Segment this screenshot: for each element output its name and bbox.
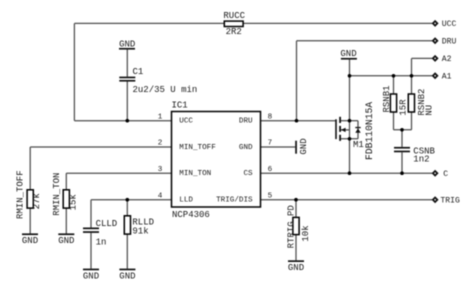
svg-text:3: 3 <box>158 166 163 174</box>
svg-text:GND: GND <box>119 40 135 50</box>
svg-text:1n: 1n <box>96 237 107 247</box>
svg-text:A2: A2 <box>442 55 452 64</box>
svg-text:NU: NU <box>425 105 435 116</box>
svg-text:FDB110N15A: FDB110N15A <box>364 102 375 160</box>
svg-text:91k: 91k <box>132 226 148 236</box>
svg-text:7: 7 <box>268 140 273 148</box>
svg-text:6: 6 <box>268 166 273 174</box>
svg-text:DRU: DRU <box>239 118 253 126</box>
svg-text:RMIN_TON: RMIN_TON <box>52 173 62 216</box>
svg-text:LLD: LLD <box>179 197 193 205</box>
svg-text:8: 8 <box>268 113 273 121</box>
svg-text:GND: GND <box>58 236 74 246</box>
svg-text:1: 1 <box>158 113 163 121</box>
svg-text:C1: C1 <box>133 67 144 77</box>
svg-text:TRIG/DIS: TRIG/DIS <box>216 197 253 205</box>
svg-text:GND: GND <box>239 144 253 152</box>
svg-text:A1: A1 <box>442 73 452 82</box>
svg-text:GND: GND <box>119 271 135 281</box>
svg-text:4: 4 <box>158 192 163 200</box>
svg-text:CS: CS <box>243 170 253 178</box>
svg-text:UCC: UCC <box>179 118 193 126</box>
svg-text:C: C <box>443 170 448 179</box>
svg-text:CLLD: CLLD <box>96 219 118 229</box>
svg-text:2: 2 <box>158 140 163 148</box>
svg-text:RMIN_TOFF: RMIN_TOFF <box>16 170 26 219</box>
svg-text:2R2: 2R2 <box>226 27 242 37</box>
svg-text:TRIG: TRIG <box>440 196 460 205</box>
svg-text:MIN_TON: MIN_TON <box>179 170 211 178</box>
svg-text:IC1: IC1 <box>172 100 188 110</box>
svg-text:15R: 15R <box>398 99 408 116</box>
svg-text:GND: GND <box>83 271 99 281</box>
svg-text:DRU: DRU <box>442 38 457 47</box>
svg-text:GND: GND <box>22 236 38 246</box>
svg-text:RTRIG PD: RTRIG PD <box>287 205 297 248</box>
svg-text:27k: 27k <box>32 193 42 209</box>
svg-text:GND: GND <box>299 138 309 154</box>
svg-text:2u2/35 U min: 2u2/35 U min <box>133 85 198 95</box>
svg-text:15k: 15k <box>68 194 78 210</box>
svg-text:RUCC: RUCC <box>223 11 245 21</box>
svg-text:NCP4306: NCP4306 <box>172 210 210 220</box>
svg-text:MIN_TOFF: MIN_TOFF <box>179 144 216 152</box>
svg-text:RSNB1: RSNB1 <box>382 85 392 112</box>
svg-text:1n2: 1n2 <box>413 154 429 164</box>
svg-text:M1: M1 <box>353 140 364 150</box>
svg-text:GND: GND <box>288 263 304 273</box>
svg-text:GND: GND <box>340 49 356 59</box>
svg-text:UCC: UCC <box>442 20 457 29</box>
svg-text:10k: 10k <box>301 225 311 241</box>
svg-text:5: 5 <box>268 192 273 200</box>
